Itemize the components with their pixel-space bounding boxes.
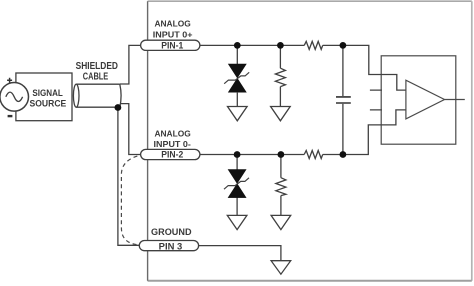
TVS diode column row1 lead (236, 45, 238, 106)
svg-text:ANALOG: ANALOG (154, 19, 191, 29)
svg-text:ANALOG: ANALOG (154, 128, 191, 138)
ground symbol pin3 (271, 261, 291, 275)
svg-text:PIN-2: PIN-2 (161, 150, 183, 160)
plus terminal label (7, 78, 12, 83)
junction dot pin1 rail resistor (277, 42, 284, 49)
junction dot pin2 rail TVS (234, 151, 241, 158)
resistor series R2 (304, 151, 323, 159)
svg-text:SHIELDED: SHIELDED (76, 61, 118, 72)
node PIN-2 (141, 149, 200, 159)
wire ground rail (198, 246, 281, 261)
ground symbol D2 (227, 215, 247, 229)
junction dot pin1 rail TVS (234, 42, 241, 49)
signal source loop box (16, 73, 72, 121)
amplifier block box (381, 56, 456, 144)
ANALOG INPUT 0+ label (153, 19, 193, 40)
TVS diode D1 (224, 64, 249, 92)
ground symbol R4 (271, 215, 291, 229)
svg-text:CABLE: CABLE (83, 72, 109, 83)
resistor shunt R3 (275, 68, 285, 86)
resistor shunt row1 lead (279, 45, 281, 106)
wire op-amp output (445, 99, 465, 101)
wire AI0- cable to pin2 (121, 104, 142, 155)
op-amp U1 (406, 80, 445, 119)
SIGNAL SOURCE label (30, 88, 67, 109)
ANALOG INPUT 0- label (154, 128, 192, 149)
signal source V1 (0, 83, 29, 112)
op-amp U1 input stubs (370, 90, 382, 110)
wire AI0+ cable to pin1 (120, 45, 142, 84)
wire AI0- rail (200, 110, 406, 155)
device enclosure box (148, 1, 472, 281)
resistor shunt row2 lead (280, 155, 282, 216)
resistor series R1 (304, 41, 323, 49)
wire AI0+ rail (200, 45, 406, 90)
capacitor C1 (336, 97, 351, 103)
svg-text:INPUT 0+: INPUT 0+ (153, 30, 193, 40)
minus terminal label (8, 115, 13, 117)
node PIN 3 (139, 241, 198, 252)
wire shield to pin3 (118, 108, 140, 246)
shielded cable (73, 84, 121, 107)
svg-text:INPUT 0-: INPUT 0- (154, 139, 191, 149)
svg-text:SOURCE: SOURCE (30, 99, 67, 110)
node PIN-1 (141, 40, 200, 50)
junction dot pin2 rail resistor (278, 151, 285, 158)
TVS diode column row2 lead (236, 155, 238, 216)
junction dot pin1 rail capacitor (340, 42, 347, 49)
SHIELDED CABLE label (76, 61, 118, 83)
junction dot pin2 rail capacitor (340, 151, 347, 158)
TVS diode D2 (224, 170, 249, 198)
dashed shield-ground link (121, 155, 139, 245)
capacitor C1 leads (342, 45, 344, 154)
svg-text:PIN-1: PIN-1 (161, 41, 183, 51)
svg-text:PIN 3: PIN 3 (159, 241, 183, 251)
resistor shunt R4 (276, 178, 286, 196)
ground symbol R3 (271, 107, 291, 121)
ground symbol D1 (228, 107, 248, 121)
junction dot cable shield (115, 104, 122, 111)
svg-text:GROUND: GROUND (151, 227, 192, 237)
